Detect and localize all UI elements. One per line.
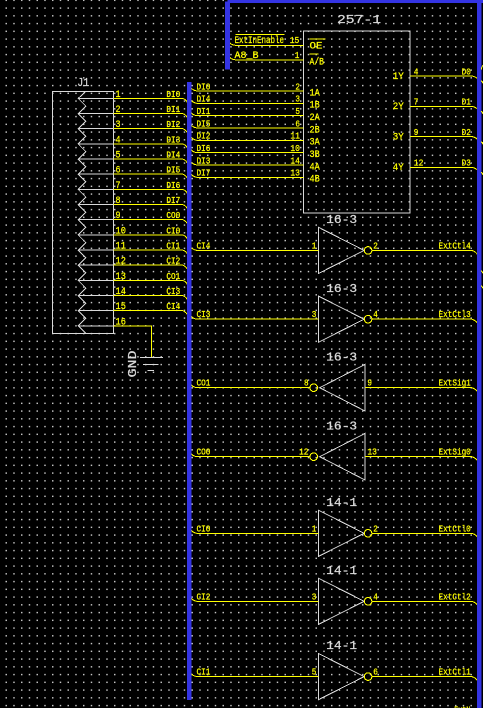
svg-text:ExtCtl1: ExtCtl1 — [439, 667, 472, 678]
svg-text:ExtN: ExtN — [454, 704, 470, 708]
svg-text:ExtCtl3: ExtCtl3 — [439, 309, 472, 320]
wire inverter to ExtSig1 bus — [365, 388, 478, 393]
inverter U1 triangle — [318, 227, 364, 273]
wire stub right edge y=111.0 — [481, 111, 483, 114]
svg-text:DI4: DI4 — [166, 150, 180, 161]
svg-text:3: 3 — [312, 592, 317, 602]
inverter U4 bubble — [310, 453, 318, 461]
svg-text:D2: D2 — [462, 127, 471, 138]
wire J1 pin 16 to GND — [113, 326, 151, 358]
wire J1 pin 15 to bus — [113, 311, 188, 317]
inverter U2 triangle — [318, 296, 364, 342]
wire CI2 from bus to inverter — [190, 597, 318, 601]
svg-text:CI2: CI2 — [197, 591, 211, 602]
wire inverter to ExtCtl0 bus — [372, 533, 478, 538]
wire J1 pin 12 to bus — [113, 265, 188, 271]
inverter U7 triangle — [318, 653, 364, 699]
wire stub right edge y=270.5 — [481, 271, 483, 274]
wire CO1 from bus to inverter — [190, 383, 310, 387]
svg-text:DI7: DI7 — [166, 195, 180, 206]
svg-text:5: 5 — [295, 107, 300, 117]
svg-text:15: 15 — [290, 36, 300, 46]
wire J1 pin 5 to bus — [113, 159, 188, 165]
net label ExtInEnable overbar — [235, 33, 284, 35]
connector J1 body — [52, 92, 113, 334]
wire DI7 from bus to pin 13 — [190, 173, 303, 177]
wire stub right edge y=285.5 — [481, 286, 483, 289]
bus: top horizontal rail — [228, 0, 483, 3]
svg-text:D0: D0 — [462, 66, 471, 77]
svg-text:ExtSig0: ExtSig0 — [439, 447, 472, 458]
svg-text:CI2: CI2 — [166, 256, 180, 267]
svg-text:11: 11 — [290, 132, 300, 142]
svg-text:5: 5 — [312, 668, 317, 678]
connector J1 zigzag contacts — [78, 92, 86, 334]
svg-text:OE: OE — [310, 42, 323, 53]
svg-text:16-3: 16-3 — [326, 419, 357, 433]
inverter U5 triangle — [318, 510, 364, 556]
svg-text:13: 13 — [367, 448, 377, 458]
wire A8_B to A/B pin 1 — [229, 56, 304, 60]
pin name A overbar — [310, 53, 319, 55]
wire inverter to ExtSig0 bus — [365, 457, 478, 462]
svg-text:4: 4 — [373, 592, 378, 602]
svg-text:ExtCtl2: ExtCtl2 — [439, 591, 472, 602]
svg-text:CI1: CI1 — [197, 667, 211, 678]
wire J1 pin 4 to bus — [113, 144, 188, 150]
svg-text:257-1: 257-1 — [337, 13, 381, 27]
wire CI1 from bus to inverter — [190, 672, 318, 676]
svg-text:12: 12 — [116, 257, 126, 268]
svg-text:14: 14 — [116, 287, 126, 298]
svg-text:3Y: 3Y — [393, 133, 404, 144]
wire 3Y pin 9 to D2 bus — [410, 137, 483, 143]
wire 4Y pin 12 to D3 bus — [410, 167, 483, 173]
svg-text:DI3: DI3 — [166, 134, 180, 145]
inverter U4 triangle (mirrored) — [320, 434, 365, 480]
svg-text:2: 2 — [116, 105, 121, 116]
inverter U3 bubble — [310, 384, 318, 392]
svg-text:CI0: CI0 — [197, 523, 211, 534]
wire J1 pin 10 to bus — [113, 235, 188, 241]
wire CI4 from bus to inverter — [190, 246, 318, 250]
wire inverter to ExtCtl2 bus — [372, 601, 478, 606]
bus: right vertical bus — [477, 0, 482, 708]
svg-text:7: 7 — [116, 181, 121, 192]
inverter U1 bubble — [364, 247, 372, 255]
wire J1 pin 6 to bus — [113, 174, 188, 180]
wire DI1 from bus to pin 5 — [190, 111, 303, 115]
svg-text:10: 10 — [116, 226, 126, 237]
inverter U3 triangle (mirrored) — [320, 365, 365, 411]
wire DI4 from bus to pin 3 — [190, 99, 303, 103]
inverter U7 bubble — [364, 673, 372, 681]
svg-text:6: 6 — [373, 668, 378, 678]
svg-text:2: 2 — [373, 524, 378, 534]
wire stub right edge y=141.5 — [481, 142, 483, 145]
inverter U2 bubble — [364, 315, 372, 323]
svg-text:16: 16 — [116, 317, 126, 328]
svg-text:12: 12 — [414, 159, 424, 169]
svg-text:4: 4 — [414, 67, 419, 77]
svg-text:6: 6 — [116, 166, 121, 177]
svg-text:4B: 4B — [310, 175, 320, 186]
wire inverter to ExtCtl3 bus — [372, 319, 478, 324]
svg-text:CO1: CO1 — [197, 378, 211, 389]
svg-text:CI3: CI3 — [166, 286, 180, 297]
svg-text:7: 7 — [414, 98, 419, 108]
svg-text:CI0: CI0 — [166, 225, 180, 236]
inverter U5 bubble — [364, 530, 372, 538]
svg-text:CO0: CO0 — [166, 210, 180, 221]
svg-text:2A: 2A — [310, 113, 320, 124]
svg-text:15: 15 — [116, 302, 126, 313]
wire J1 pin 8 to bus — [113, 205, 188, 211]
svg-text:16-3: 16-3 — [326, 213, 357, 227]
svg-text:8: 8 — [116, 196, 121, 207]
svg-text:1: 1 — [312, 241, 317, 251]
svg-text:CO1: CO1 — [166, 271, 180, 282]
svg-text:14: 14 — [290, 156, 300, 166]
svg-text:13: 13 — [290, 169, 300, 179]
svg-text:D3: D3 — [462, 158, 471, 169]
svg-text:ExtCtl0: ExtCtl0 — [439, 523, 472, 534]
svg-text:1: 1 — [116, 90, 121, 101]
svg-text:9: 9 — [367, 379, 372, 389]
wire stub right edge y=80.5 — [481, 81, 483, 84]
svg-text:DI6: DI6 — [166, 180, 180, 191]
wire ExtInEnable to OE pin 15 — [229, 41, 304, 45]
bus: middle vertical bus — [187, 82, 192, 700]
svg-text:1: 1 — [312, 524, 317, 534]
svg-text:2B: 2B — [310, 125, 320, 136]
svg-text:DI7: DI7 — [197, 168, 211, 179]
wire CO0 from bus to inverter — [190, 452, 310, 456]
wire DI5 from bus to pin 6 — [190, 124, 303, 128]
wire 2Y pin 7 to D1 bus — [410, 106, 483, 112]
svg-text:A/B: A/B — [310, 56, 325, 68]
inverter U6 triangle — [318, 578, 364, 624]
wire J1 pin 7 to bus — [113, 189, 188, 195]
wire inverter to ExtCtl1 bus — [372, 677, 478, 682]
svg-text:CI4: CI4 — [197, 240, 211, 251]
svg-text:9: 9 — [414, 128, 419, 138]
svg-text:2: 2 — [373, 241, 378, 251]
svg-text:6: 6 — [295, 119, 300, 129]
bus: top-left vertical stub — [225, 2, 230, 70]
wire CI3 from bus to inverter — [190, 315, 318, 319]
wire DI3 from bus to pin 14 — [190, 161, 303, 165]
svg-text:10: 10 — [290, 144, 300, 154]
svg-text:DI1: DI1 — [197, 106, 211, 117]
svg-text:GND: GND — [126, 351, 140, 378]
svg-text:1: 1 — [295, 51, 300, 61]
svg-text:5: 5 — [116, 151, 121, 162]
svg-text:11: 11 — [116, 242, 126, 253]
wire J1 pin 2 to bus — [113, 114, 188, 120]
wire J1 pin 1 to bus — [113, 98, 188, 104]
svg-text:DI5: DI5 — [166, 165, 180, 176]
svg-text:DI5: DI5 — [197, 118, 211, 129]
svg-text:14-1: 14-1 — [326, 639, 357, 653]
svg-text:2: 2 — [295, 82, 300, 92]
svg-text:DI3: DI3 — [197, 155, 211, 166]
wire J1 pin 13 to bus — [113, 280, 188, 286]
svg-text:4Y: 4Y — [393, 163, 404, 174]
svg-text:CO0: CO0 — [197, 447, 211, 458]
wire stub right edge y=172.0 — [481, 172, 483, 175]
svg-text:ExtSig1: ExtSig1 — [439, 378, 472, 389]
wire inverter to ExtCtl4 bus — [372, 250, 478, 255]
multiplexer 257-1 body — [304, 31, 411, 213]
inverter U6 bubble — [364, 598, 372, 606]
svg-text:3B: 3B — [310, 150, 320, 161]
svg-text:ExtInEnable: ExtInEnable — [235, 35, 285, 47]
svg-text:1A: 1A — [310, 88, 320, 99]
wire 1Y pin 4 to D0 bus — [410, 76, 483, 82]
wire stub right edge (up-hook) — [481, 66, 483, 70]
svg-text:16-3: 16-3 — [326, 282, 357, 296]
wire DI0 from bus to pin 2 — [190, 87, 303, 91]
wire DI2 from bus to pin 11 — [190, 136, 303, 140]
svg-text:2Y: 2Y — [393, 102, 404, 113]
wire J1 pin 9 to bus — [113, 220, 188, 226]
svg-text:J1: J1 — [77, 76, 89, 90]
svg-text:1Y: 1Y — [393, 72, 404, 83]
svg-text:12: 12 — [299, 448, 309, 458]
svg-text:DI6: DI6 — [197, 143, 211, 154]
svg-text:CI4: CI4 — [166, 301, 180, 312]
pin name OE overbar — [310, 38, 326, 40]
svg-text:8: 8 — [304, 379, 309, 389]
svg-text:DI0: DI0 — [166, 89, 180, 100]
svg-text:9: 9 — [116, 211, 121, 222]
svg-text:ExtCtl4: ExtCtl4 — [439, 240, 472, 251]
svg-text:CI3: CI3 — [197, 309, 211, 320]
svg-text:14-1: 14-1 — [326, 564, 357, 578]
wire J1 pin 3 to bus — [113, 129, 188, 135]
svg-text:DI2: DI2 — [166, 119, 180, 130]
svg-text:4A: 4A — [310, 162, 320, 173]
svg-text:3: 3 — [312, 310, 317, 320]
svg-text:3: 3 — [295, 95, 300, 105]
svg-text:DI2: DI2 — [197, 131, 211, 142]
svg-text:D1: D1 — [462, 97, 471, 108]
wire J1 pin 11 to bus — [113, 250, 188, 256]
svg-text:DI0: DI0 — [197, 81, 211, 92]
svg-text:DI1: DI1 — [166, 104, 180, 115]
connector J1 internal pin lines — [78, 98, 113, 326]
svg-text:A8_B: A8_B — [235, 51, 259, 62]
wire DI6 from bus to pin 10 — [190, 148, 303, 152]
wire J1 pin 14 to bus — [113, 296, 188, 302]
svg-text:CI1: CI1 — [166, 241, 180, 252]
svg-text:4: 4 — [373, 310, 378, 320]
svg-text:13: 13 — [116, 272, 126, 283]
wire CI0 from bus to inverter — [190, 529, 318, 533]
svg-text:1B: 1B — [310, 101, 320, 112]
ground GND symbol bars — [140, 358, 163, 371]
svg-text:16-3: 16-3 — [326, 350, 357, 364]
svg-text:14-1: 14-1 — [326, 496, 357, 510]
svg-text:3: 3 — [116, 120, 121, 131]
svg-text:3A: 3A — [310, 138, 320, 149]
svg-text:4: 4 — [116, 135, 121, 146]
svg-text:DI4: DI4 — [197, 94, 211, 105]
